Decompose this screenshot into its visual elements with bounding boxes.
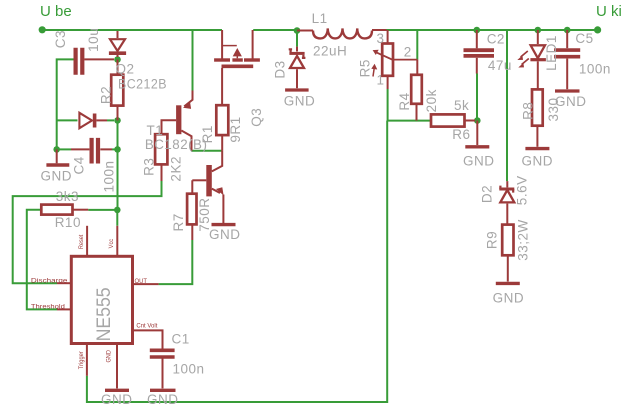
transistor T1 (162, 91, 193, 151)
svg-text:C4: C4 (71, 156, 86, 174)
svg-text:GND: GND (106, 350, 113, 363)
ground (C4) (46, 149, 69, 165)
zener D2 (499, 181, 514, 225)
wire C3 left (57, 59, 74, 149)
svg-text:OUT: OUT (135, 278, 148, 285)
capacitor C4 (71, 138, 112, 164)
svg-text:Reset: Reset (78, 234, 85, 249)
capacitor C2 (464, 30, 495, 74)
svg-text:R3: R3 (142, 158, 157, 176)
svg-text:100n: 100n (173, 362, 205, 377)
resistor R9 (496, 225, 520, 284)
svg-text:NE555: NE555 (93, 287, 115, 341)
node C5 top junction (564, 27, 571, 34)
node C2 top junction (474, 27, 481, 34)
svg-text:R5: R5 (358, 59, 373, 77)
IC NE555 (57, 226, 163, 390)
svg-text:GND: GND (493, 291, 524, 306)
capacitor C5 (554, 30, 580, 91)
svg-text:22uH: 22uH (313, 44, 347, 59)
svg-text:20k: 20k (424, 89, 439, 112)
svg-text:GND: GND (101, 392, 133, 407)
svg-text:R4: R4 (397, 92, 412, 110)
svg-text:Vcc: Vcc (108, 238, 115, 248)
svg-text:47u: 47u (488, 58, 512, 73)
wire D3 top (296, 32, 298, 47)
diode D3 (schottky) (285, 47, 309, 90)
svg-text:GND: GND (209, 227, 241, 242)
node C4 right junction (114, 146, 121, 153)
svg-text:D2: D2 (480, 185, 495, 203)
svg-text:BC212B: BC212B (118, 77, 167, 92)
resistor R6 (431, 114, 475, 126)
wire trigger to bottom rail (87, 121, 387, 402)
svg-text:D3: D3 (273, 60, 288, 78)
resistor R7 (187, 180, 196, 240)
svg-text:GND: GND (147, 392, 179, 407)
node C4 left junction (53, 146, 60, 153)
svg-text:3: 3 (377, 31, 385, 46)
wire C2 bottom (476, 74, 478, 121)
wire out to R7 (159, 240, 193, 284)
svg-text:Discharge: Discharge (31, 277, 68, 284)
diode D1 (109, 31, 126, 57)
svg-text:Q3: Q3 (249, 108, 264, 127)
resistor R1 (216, 105, 228, 151)
node R6 gnd junction (474, 117, 481, 124)
wire diode row right (107, 119, 114, 121)
svg-text:LED1: LED1 (544, 35, 559, 71)
wire C4 left (57, 148, 71, 150)
transistor Q2 (lower NPN) (192, 151, 235, 225)
svg-text:10u: 10u (86, 28, 101, 52)
svg-text:Trigger: Trigger (78, 350, 85, 369)
capacitor C1 (150, 350, 176, 390)
node R2 bottom junction (114, 117, 121, 124)
svg-text:R7: R7 (171, 213, 186, 231)
resistor R10 (41, 205, 88, 215)
svg-text:C5: C5 (575, 31, 593, 46)
ground (R6/C2) (465, 121, 489, 147)
node R10 right junction (114, 207, 121, 214)
mosfet Q3 (214, 30, 260, 105)
resistor R4 (411, 75, 422, 121)
svg-text:R1: R1 (200, 125, 215, 143)
svg-text:2K2: 2K2 (169, 156, 184, 182)
svg-text:GND: GND (41, 169, 73, 184)
wire T1 emitter to R1 bottom (192, 150, 223, 152)
node U ki terminal (594, 26, 601, 33)
node D1 cathode junction (114, 56, 121, 63)
svg-text:C1: C1 (172, 332, 190, 347)
svg-text:Threshold: Threshold (31, 304, 65, 311)
wire C4 right (112, 148, 118, 150)
wire top rail right (387, 29, 598, 31)
wire wiper to rail (416, 31, 418, 60)
wire top rail left (42, 29, 222, 31)
svg-text:2: 2 (404, 44, 412, 59)
wire top rail mid (253, 29, 295, 31)
svg-text:U be: U be (40, 3, 72, 20)
wire T1 emitter drop (192, 31, 194, 91)
svg-text:9R1: 9R1 (228, 116, 243, 142)
svg-text:3k3: 3k3 (56, 189, 79, 204)
node LED1 top junction (535, 27, 542, 34)
svg-text:R8: R8 (520, 102, 535, 120)
svg-text:GND: GND (463, 154, 495, 169)
resistor R2 (111, 60, 123, 121)
svg-text:Q2: Q2 (116, 62, 135, 77)
wire R3 bottom to discharge (13, 181, 162, 283)
resistor R3 (155, 134, 167, 181)
svg-text:R6: R6 (452, 127, 470, 142)
svg-text:33;2W: 33;2W (516, 219, 531, 261)
wire R5 pin1 down (388, 89, 431, 121)
svg-text:GND: GND (284, 94, 316, 109)
wire D2 top (506, 31, 508, 181)
wire R6 to gnd node (475, 120, 477, 122)
diode D5 (left, pointing right) (79, 113, 107, 128)
wire R10 right to vcc node (88, 210, 117, 226)
svg-text:C2: C2 (487, 32, 505, 47)
led LED1 (517, 30, 546, 89)
svg-text:GND: GND (522, 154, 554, 169)
resistor R8 (525, 89, 549, 148)
wire R2 node vertical (117, 120, 119, 209)
svg-text:C3: C3 (53, 30, 68, 48)
svg-text:5.6V: 5.6V (514, 175, 529, 205)
svg-text:GND: GND (555, 94, 587, 109)
svg-text:R9: R9 (485, 231, 500, 249)
svg-text:T1: T1 (147, 123, 164, 138)
svg-text:BC182(B): BC182(B) (145, 137, 208, 152)
wire R10 left to threshold (27, 210, 57, 310)
node U be terminal (39, 26, 46, 33)
svg-text:5k: 5k (454, 98, 469, 113)
node L1 left junction (294, 27, 301, 34)
capacitor C3 (76, 48, 114, 75)
svg-text:L1: L1 (312, 11, 328, 26)
trimmer R5 (371, 30, 417, 89)
svg-text:1: 1 (377, 72, 385, 87)
svg-text:R2: R2 (98, 86, 113, 104)
svg-text:U ki: U ki (596, 3, 622, 20)
svg-text:Cnt Volt: Cnt Volt (136, 322, 157, 329)
svg-text:100n: 100n (102, 160, 117, 192)
wire diode row left (57, 119, 78, 121)
inductor L1 (297, 28, 387, 38)
svg-text:R10: R10 (55, 215, 81, 230)
svg-text:100n: 100n (579, 62, 611, 77)
